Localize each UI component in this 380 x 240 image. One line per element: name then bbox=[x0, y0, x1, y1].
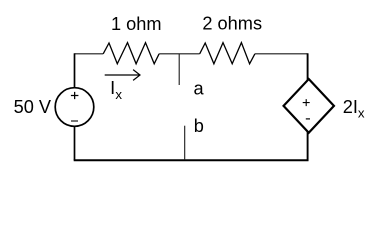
svg-text:x: x bbox=[115, 87, 122, 102]
svg-text:I: I bbox=[110, 78, 115, 98]
label 2Ix bbox=[343, 97, 365, 121]
current arrow Ix bbox=[105, 70, 140, 81]
wire bottom segment bbox=[74, 159, 309, 161]
label 50 V bbox=[14, 97, 52, 117]
svg-text:x: x bbox=[358, 105, 365, 120]
wire left upper (source top lead) bbox=[74, 53, 76, 88]
svg-text:50 V: 50 V bbox=[14, 97, 52, 117]
wire top-left segment bbox=[75, 53, 104, 55]
wire right lower (dependent source bottom lead) bbox=[307, 132, 309, 162]
wire top-right segment bbox=[255, 53, 308, 55]
wire top-middle segment (node a net) bbox=[159, 53, 200, 55]
svg-text:2 ohms: 2 ohms bbox=[202, 14, 262, 34]
resistor R1 1 ohm bbox=[103, 43, 159, 64]
node a (stub and label) bbox=[179, 54, 204, 99]
wire left lower (source bottom lead) bbox=[74, 126, 76, 160]
resistor R2 2 ohms bbox=[200, 43, 255, 64]
svg-text:b: b bbox=[194, 116, 204, 136]
label 1 ohm bbox=[111, 14, 162, 34]
wire right upper (dependent source top lead) bbox=[307, 53, 309, 80]
svg-text:1 ohm: 1 ohm bbox=[111, 14, 162, 34]
voltage source V1 50 V (circle with polarity) bbox=[55, 88, 94, 127]
dependent source U1 (diamond, 2Ix controlled) bbox=[284, 79, 334, 133]
svg-text:a: a bbox=[194, 79, 205, 99]
node b (stub and label) bbox=[185, 116, 204, 160]
label Ix bbox=[110, 78, 122, 102]
svg-text:2I: 2I bbox=[343, 97, 358, 117]
label 2 ohms bbox=[202, 14, 262, 34]
